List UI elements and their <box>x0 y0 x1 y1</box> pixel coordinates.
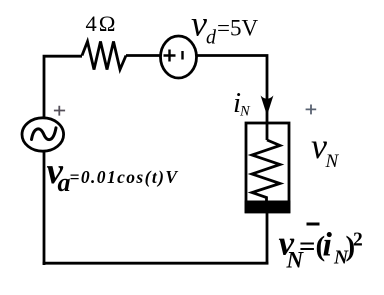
svg-text:N: N <box>239 104 251 120</box>
label: plus vN polarity <box>306 105 317 115</box>
svg-text:=0.01cos(t)V: =0.01cos(t)V <box>70 167 179 187</box>
wire: bottom horizontal <box>43 262 269 265</box>
svg-text:i: i <box>323 227 333 264</box>
label: va=0.01cos(t)V value <box>47 151 179 197</box>
svg-text:4Ω: 4Ω <box>86 11 118 36</box>
svg-text:d: d <box>206 27 217 49</box>
label: equation vN=(iN)^2 <box>279 224 363 273</box>
resistor R1 4ohm zigzag <box>82 42 126 70</box>
label: iN current <box>233 87 251 120</box>
svg-text:=5V: =5V <box>217 16 258 41</box>
nonlinear element N bottom bar <box>245 201 291 214</box>
wire: left vertical lower segment <box>43 152 46 266</box>
svg-text:2: 2 <box>353 230 363 251</box>
Vd polarity plus <box>164 50 176 62</box>
svg-text:N: N <box>325 151 340 172</box>
current arrow head iN <box>261 96 274 116</box>
svg-text:=(: =( <box>299 231 325 263</box>
voltage source U1 Vd circle <box>161 36 197 78</box>
wire: left vertical upper segment <box>44 56 82 119</box>
wire: box bottom to bottom-right corner <box>266 212 269 265</box>
wire: resistor to Vd source <box>126 54 161 57</box>
label: minus vN polarity <box>307 223 320 226</box>
nonlinear element N internal zigzag resistor <box>252 140 280 203</box>
label: vd=5V value <box>191 4 258 49</box>
AC source U2 Va ellipse <box>22 118 64 151</box>
Vd polarity minus tick <box>181 51 183 60</box>
wire: Vd source to top-right corner and down to box <box>197 56 268 141</box>
svg-text:v: v <box>191 4 207 44</box>
label: plus va polarity <box>54 106 65 116</box>
nonlinear element N box <box>246 123 289 212</box>
label: vN voltage <box>311 126 340 172</box>
AC source sine wave symbol <box>32 128 57 140</box>
